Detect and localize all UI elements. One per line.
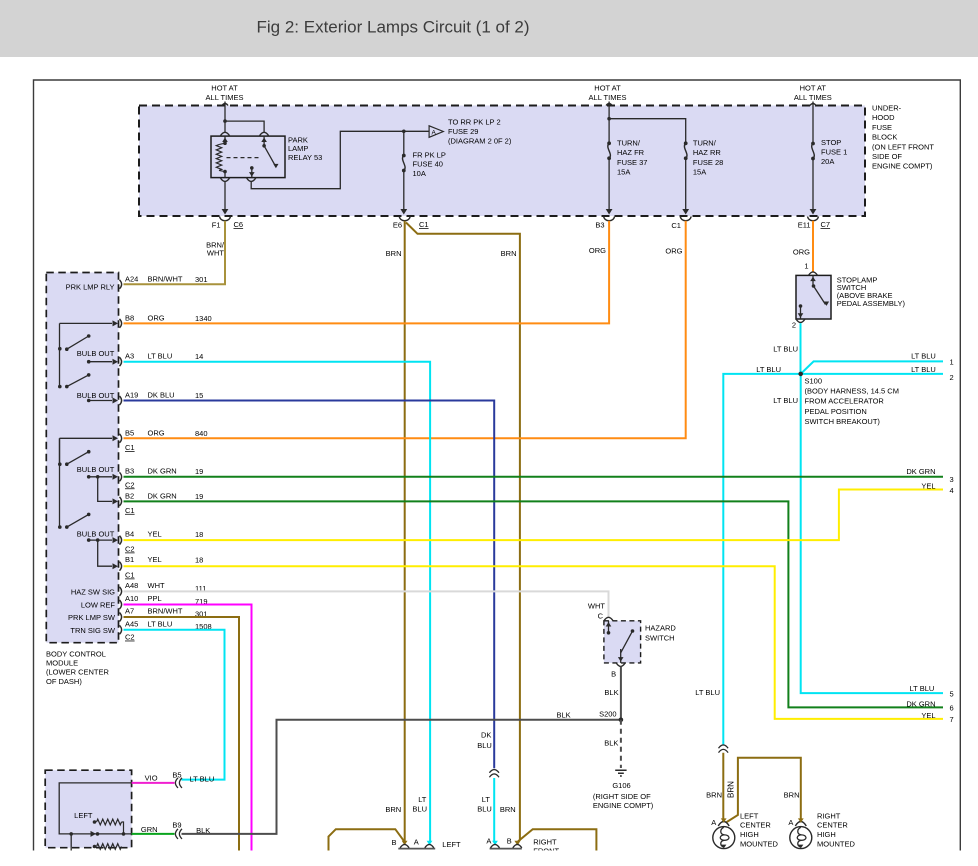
svg-text:LT BLU: LT BLU — [695, 688, 720, 697]
label YEL (terminal 7) — [921, 711, 935, 720]
splice S200 — [599, 710, 623, 723]
svg-text:HAZ SW SIG: HAZ SW SIG — [71, 587, 115, 596]
svg-text:HAZ FR: HAZ FR — [617, 148, 645, 157]
svg-text:B: B — [391, 838, 396, 847]
svg-text:C2: C2 — [125, 545, 135, 554]
switch HAZARD SWITCH — [598, 612, 641, 679]
svg-text:DK GRN: DK GRN — [906, 467, 935, 476]
label BLK (ground leg) — [604, 738, 618, 747]
svg-text:1340: 1340 — [195, 314, 212, 323]
svg-text:UNDER-: UNDER- — [872, 104, 902, 113]
wire relay output to fuse 40 junction — [251, 130, 428, 189]
label HAZARD SWITCH — [645, 624, 676, 643]
svg-text:YEL: YEL — [148, 555, 162, 564]
svg-text:HOOD: HOOD — [872, 113, 895, 122]
svg-text:7: 7 — [950, 715, 954, 724]
svg-text:MOUNTED: MOUNTED — [817, 840, 855, 849]
BCM bulb-out driver 4 — [58, 438, 115, 538]
svg-text:LOW REF: LOW REF — [81, 601, 116, 610]
svg-text:20A: 20A — [821, 157, 834, 166]
svg-text:(BODY HARNESS, 14.5 CM: (BODY HARNESS, 14.5 CM — [805, 387, 899, 396]
BCM pin A10 LOW REF — [81, 594, 208, 610]
BCM pin B5 / connector C1 — [60, 428, 208, 452]
label FR PK LP FUSE 40 10A — [413, 151, 446, 178]
connector break DK BLU / LT BLU — [489, 770, 499, 778]
svg-text:ORG: ORG — [793, 248, 810, 257]
wire LT BLU S100 to terminal 1 — [801, 361, 943, 374]
BCM bulb-out driver 1 — [58, 323, 115, 358]
wire BRN left centre to right centre lamp — [726, 758, 801, 823]
svg-text:C7: C7 — [821, 220, 831, 229]
svg-text:B: B — [611, 669, 616, 678]
svg-text:C1: C1 — [671, 221, 681, 230]
label S100 BODY HARNESS — [805, 376, 899, 426]
label STOP FUSE 1 20A — [821, 138, 847, 166]
BCM bulb-out driver 3 — [58, 438, 115, 474]
svg-text:BRN/WHT: BRN/WHT — [148, 274, 183, 283]
svg-text:LT BLU: LT BLU — [148, 619, 173, 628]
svg-text:A7: A7 — [125, 607, 134, 616]
svg-text:F1: F1 — [212, 221, 221, 230]
wire arrowheads at front lamp pins — [402, 841, 521, 845]
svg-text:HOT AT: HOT AT — [211, 84, 238, 93]
BCM bulb-out driver 2 — [58, 349, 115, 401]
svg-text:A: A — [788, 818, 793, 827]
svg-text:A48: A48 — [125, 581, 138, 590]
resistor (left turn) — [93, 819, 124, 834]
svg-text:2: 2 — [950, 373, 954, 382]
wire BLK S200 to G106 (dashed) — [620, 720, 622, 768]
svg-text:WHT: WHT — [588, 602, 605, 611]
wire relay feed — [222, 102, 264, 134]
svg-text:B1: B1 — [125, 555, 134, 564]
label LT BLU (above S100) — [773, 345, 798, 354]
wire LT BLU S100 left branch to centre lamps — [723, 374, 800, 745]
svg-text:840: 840 — [195, 429, 208, 438]
svg-text:BULB OUT: BULB OUT — [77, 391, 115, 400]
svg-text:Fig 2: Exterior Lamps Circuit: Fig 2: Exterior Lamps Circuit (1 of 2) — [256, 18, 529, 37]
svg-text:5: 5 — [950, 689, 954, 698]
svg-text:1: 1 — [950, 358, 954, 367]
label YEL (terminal 4) — [921, 481, 935, 490]
fuse TURN/HAZ FR FUSE 37 15A — [606, 141, 613, 214]
svg-text:A10: A10 — [125, 594, 138, 603]
svg-text:A: A — [414, 837, 419, 846]
svg-text:PARK: PARK — [288, 136, 308, 145]
node HOT AT ALL TIMES (haz fuses feed) — [589, 84, 627, 103]
svg-text:B5: B5 — [172, 771, 181, 780]
svg-text:S100: S100 — [805, 376, 823, 385]
label PARK LAMP RELAY 53 — [288, 136, 322, 162]
svg-text:PRK LMP SW: PRK LMP SW — [68, 613, 116, 622]
svg-text:MOUNTED: MOUNTED — [740, 840, 778, 849]
svg-text:LT BLU: LT BLU — [148, 352, 173, 361]
svg-text:BLU: BLU — [477, 741, 492, 750]
svg-text:LT: LT — [418, 795, 427, 804]
wire DK BLU 15 A19 down — [124, 401, 495, 769]
fuse FR PK LP FUSE 40 10A — [400, 132, 407, 215]
svg-text:VIO: VIO — [145, 773, 158, 782]
wire relay coil to F1 — [222, 182, 229, 215]
svg-text:S200: S200 — [599, 710, 617, 719]
svg-text:A19: A19 — [125, 391, 138, 400]
BCM pin B4 BULB OUT / connector C2 — [87, 530, 203, 554]
svg-text:15: 15 — [195, 391, 203, 400]
wire LT BLU stoplamp to S100 — [800, 323, 802, 374]
wire LT BLU 1508 A45 to B5 connector — [124, 630, 225, 780]
internal feed line — [59, 783, 131, 851]
label LT BLU (right front) — [477, 795, 492, 814]
svg-text:C: C — [598, 612, 604, 621]
svg-text:BLU: BLU — [477, 805, 492, 814]
label BRN (right centre) — [784, 791, 800, 800]
svg-text:YEL: YEL — [921, 481, 935, 490]
svg-text:LT: LT — [482, 795, 491, 804]
svg-text:WHT: WHT — [148, 581, 165, 590]
svg-text:C2: C2 — [125, 633, 135, 642]
switch STOPLAMP SWITCH — [792, 262, 831, 330]
label LT BLU (centre lamp drop) — [695, 688, 720, 697]
wire ORG B3 to BCM B8 — [124, 221, 610, 324]
label LT BLU (left branch) — [756, 365, 781, 374]
svg-text:LT BLU: LT BLU — [911, 351, 936, 360]
svg-text:2: 2 — [792, 321, 796, 330]
BCM pin A24 PRK LMP RLY — [66, 274, 208, 291]
label UNDER-HOOD FUSE BLOCK — [872, 104, 934, 171]
label LT BLU (below S100) — [773, 396, 798, 405]
splice S100 — [798, 372, 803, 377]
svg-text:FUSE 37: FUSE 37 — [617, 158, 647, 167]
svg-text:C1: C1 — [125, 443, 135, 452]
BCM pin A3 BULB OUT — [87, 352, 203, 367]
svg-text:ENGINE COMPT): ENGINE COMPT) — [872, 162, 933, 171]
BCM pin A19 BULB OUT — [87, 391, 203, 406]
svg-text:(DIAGRAM 2 0F 2): (DIAGRAM 2 0F 2) — [448, 137, 512, 146]
svg-text:C1: C1 — [125, 571, 135, 580]
svg-text:FROM ACCELERATOR: FROM ACCELERATOR — [805, 397, 885, 406]
svg-text:BRN/WHT: BRN/WHT — [148, 607, 183, 616]
svg-text:CENTER: CENTER — [817, 821, 848, 830]
svg-text:14: 14 — [195, 352, 203, 361]
pin B9 inline connector GRN/BLK — [132, 821, 211, 839]
svg-text:1: 1 — [804, 262, 808, 271]
svg-text:(RIGHT SIDE OF: (RIGHT SIDE OF — [593, 792, 651, 801]
svg-text:OF DASH): OF DASH) — [46, 677, 82, 686]
header title bar — [0, 0, 978, 57]
svg-text:BRN: BRN — [386, 249, 402, 258]
node HOT AT ALL TIMES (park lamp relay feed) — [206, 84, 244, 103]
svg-text:DK GRN: DK GRN — [148, 466, 177, 475]
svg-text:LT BLU: LT BLU — [773, 345, 798, 354]
svg-text:LEFT: LEFT — [74, 811, 93, 820]
label BLK (horizontal) — [557, 711, 571, 720]
wire BRN/WHT 301 F1 to BCM A24 — [124, 221, 226, 285]
wire BRN stub from right front B going right — [518, 829, 597, 850]
wire BRN E6 to left front B — [404, 221, 406, 844]
svg-text:HOT AT: HOT AT — [594, 84, 621, 93]
svg-text:SIDE OF: SIDE OF — [872, 152, 902, 161]
pin B3 — [595, 217, 614, 230]
svg-text:FUSE 1: FUSE 1 — [821, 148, 847, 157]
svg-text:B2: B2 — [125, 491, 134, 500]
svg-text:DK BLU: DK BLU — [148, 391, 175, 400]
wire BRN to left centre lamp — [722, 753, 724, 822]
svg-text:C1: C1 — [125, 506, 135, 515]
off-page arrow A TO RR PK LP 2 — [429, 126, 443, 138]
svg-text:SWITCH: SWITCH — [645, 633, 675, 642]
pin E6 / connector C1 — [393, 217, 429, 230]
svg-text:FUSE: FUSE — [872, 123, 892, 132]
svg-text:(ON LEFT FRONT: (ON LEFT FRONT — [872, 142, 934, 151]
svg-text:DK GRN: DK GRN — [906, 700, 935, 709]
svg-text:BRN: BRN — [727, 781, 736, 798]
svg-text:DK: DK — [481, 731, 491, 740]
svg-text:ORG: ORG — [665, 246, 682, 255]
label LEFT CENTER HIGH MOUNTED — [740, 811, 778, 848]
svg-text:BODY CONTROL: BODY CONTROL — [46, 650, 106, 659]
label ORG (E11) — [793, 248, 810, 257]
BCM pin B3 BULB OUT / connector C2 — [87, 466, 203, 489]
svg-text:301: 301 — [195, 275, 208, 284]
relay PARK LAMP RELAY 53 — [211, 132, 285, 181]
svg-text:C1: C1 — [419, 220, 429, 229]
svg-text:PEDAL POSITION: PEDAL POSITION — [805, 407, 867, 416]
fuse TURN/HAZ RR FUSE 28 15A — [682, 141, 689, 214]
svg-text:HAZ RR: HAZ RR — [693, 148, 722, 157]
svg-text:CENTER: CENTER — [740, 821, 771, 830]
svg-text:BULB OUT: BULB OUT — [77, 349, 115, 358]
wire BLK from B9 to S200 — [182, 720, 621, 834]
svg-text:ALL TIMES: ALL TIMES — [589, 93, 627, 102]
svg-text:TRN SIG SW: TRN SIG SW — [70, 626, 116, 635]
svg-text:BRN: BRN — [501, 249, 517, 258]
svg-text:ENGINE COMPT): ENGINE COMPT) — [593, 801, 654, 810]
lamp LEFT CENTER HIGH MOUNTED — [711, 818, 735, 849]
BCM pin B2 BULB OUT / connector C1 — [98, 477, 204, 515]
underhood fuse block (dashed box) — [139, 106, 865, 217]
svg-text:E11: E11 — [798, 221, 811, 230]
svg-text:BLK: BLK — [196, 826, 210, 835]
label BRN (right front) — [500, 805, 516, 814]
svg-text:A24: A24 — [125, 274, 138, 283]
wire PPL 719 A10 down — [124, 605, 252, 851]
label LT BLU (terminal 5) — [910, 684, 935, 693]
wire YEL 18 B4 to terminal 4 — [124, 490, 944, 541]
wire DK GRN 19 B3 to terminal 3 — [124, 476, 944, 478]
BCM pin B1 BULB OUT / connector C1 — [98, 540, 204, 579]
svg-text:TURN/: TURN/ — [693, 139, 717, 148]
pin C1 (fuse 28) — [671, 217, 691, 231]
svg-text:6: 6 — [950, 704, 954, 713]
svg-text:B4: B4 — [125, 530, 134, 539]
connector right front park/turn lamp — [486, 837, 521, 849]
label BLK (hazard) — [604, 688, 618, 697]
svg-text:LT BLU: LT BLU — [756, 365, 781, 374]
wire YEL 18 B1 to terminal 7 — [124, 566, 944, 719]
label LEFT — [74, 811, 93, 820]
svg-text:B8: B8 — [125, 313, 134, 322]
svg-text:15A: 15A — [693, 168, 706, 177]
svg-text:MODULE: MODULE — [46, 659, 78, 668]
svg-text:PPL: PPL — [148, 594, 162, 603]
svg-text:A45: A45 — [125, 619, 138, 628]
svg-text:FUSE 28: FUSE 28 — [693, 158, 723, 167]
connector left front park/turn lamp — [391, 837, 435, 848]
label DK BLU — [477, 731, 492, 751]
svg-text:BLK: BLK — [604, 688, 618, 697]
svg-text:A: A — [486, 837, 491, 846]
svg-text:BRN: BRN — [706, 791, 722, 800]
label ORG (C1) — [665, 246, 682, 255]
svg-text:STOP: STOP — [821, 138, 841, 147]
svg-text:ALL TIMES: ALL TIMES — [206, 93, 244, 102]
label RIGHT CENTER HIGH MOUNTED — [817, 811, 855, 848]
label DK GRN (terminal 6) — [906, 700, 935, 709]
label TURN/HAZ FR FUSE 37 15A — [617, 139, 647, 177]
svg-text:LT BLU: LT BLU — [910, 684, 935, 693]
svg-text:RIGHT: RIGHT — [533, 837, 557, 846]
svg-text:C2: C2 — [125, 480, 135, 489]
svg-text:YEL: YEL — [921, 711, 935, 720]
svg-text:B9: B9 — [172, 821, 181, 830]
wire stop fuse feed — [810, 102, 816, 144]
svg-text:15A: 15A — [617, 168, 630, 177]
svg-text:GRN: GRN — [141, 825, 158, 834]
wire LT BLU S100 down to terminal 5 — [801, 374, 943, 693]
label BODY CONTROL MODULE — [46, 650, 110, 686]
ground G106 — [593, 770, 654, 810]
svg-text:ORG: ORG — [148, 428, 165, 437]
svg-text:BRN: BRN — [784, 791, 800, 800]
wire ORG C1 to BCM B5 — [124, 221, 686, 439]
wire LT BLU 14 A3 to left front A — [124, 362, 431, 844]
wire BRN stub to left front B (from below) — [329, 829, 405, 850]
svg-text:A: A — [432, 129, 437, 136]
wire fuse 37/28 feed — [606, 102, 686, 144]
wire ORG E11 to stoplamp switch — [812, 221, 814, 272]
svg-text:BULB OUT: BULB OUT — [77, 530, 115, 539]
svg-text:LAMP: LAMP — [288, 144, 308, 153]
label LT BLU (terminal 2) — [911, 365, 936, 374]
svg-text:10A: 10A — [413, 169, 426, 178]
svg-text:18: 18 — [195, 556, 203, 565]
svg-text:DK GRN: DK GRN — [148, 491, 177, 500]
svg-text:TO RR PK LP 2: TO RR PK LP 2 — [448, 118, 501, 127]
svg-text:A3: A3 — [125, 352, 134, 361]
label BRN (left front) — [385, 805, 401, 814]
svg-text:WHT: WHT — [207, 249, 224, 258]
svg-text:TURN/: TURN/ — [617, 139, 641, 148]
svg-text:RIGHT: RIGHT — [817, 811, 841, 820]
svg-text:SWITCH BREAKOUT): SWITCH BREAKOUT) — [805, 417, 881, 426]
svg-text:3: 3 — [950, 475, 954, 484]
svg-text:FR PK LP: FR PK LP — [413, 151, 446, 160]
pin F1 / connector C6 — [212, 217, 243, 230]
wire LT BLU to right front A — [493, 778, 496, 844]
svg-text:G106: G106 — [612, 781, 630, 790]
svg-text:A: A — [711, 818, 716, 827]
svg-text:B: B — [507, 837, 512, 846]
svg-text:BLU: BLU — [412, 805, 427, 814]
module BODY CONTROL MODULE (dashed box) — [46, 273, 118, 643]
BCM pin A7 PRK LMP SW — [68, 607, 207, 623]
svg-text:B5: B5 — [125, 428, 134, 437]
label LT BLU (terminal 1) — [911, 351, 936, 360]
svg-text:ORG: ORG — [148, 313, 165, 322]
svg-text:FUSE 40: FUSE 40 — [413, 160, 443, 169]
svg-text:19: 19 — [195, 492, 203, 501]
svg-text:LT BLU: LT BLU — [190, 775, 215, 784]
pin B5 inline connector VIO/LT BLU — [132, 771, 215, 788]
label STOPLAMP SWITCH — [837, 275, 906, 308]
svg-text:HAZARD: HAZARD — [645, 624, 676, 633]
svg-text:B3: B3 — [125, 466, 134, 475]
label BRN (x405) — [386, 249, 402, 258]
svg-text:HIGH: HIGH — [817, 830, 836, 839]
svg-text:PEDAL ASSEMBLY): PEDAL ASSEMBLY) — [837, 299, 906, 308]
resistor 2 (cut off) — [93, 844, 122, 850]
svg-text:4: 4 — [950, 486, 954, 495]
svg-text:C6: C6 — [234, 220, 244, 229]
svg-text:BLK: BLK — [557, 711, 571, 720]
svg-text:HOT AT: HOT AT — [800, 84, 827, 93]
BCM pin A45 TRN SIG SW / connector C2 — [70, 619, 211, 641]
svg-text:BULB OUT: BULB OUT — [77, 465, 115, 474]
pin E11 / connector C7 — [798, 217, 830, 230]
svg-text:LT BLU: LT BLU — [773, 396, 798, 405]
wire BRN/WHT 301 A7 down — [124, 617, 240, 851]
svg-text:E6: E6 — [393, 221, 402, 230]
svg-text:(LOWER CENTER: (LOWER CENTER — [46, 668, 110, 677]
label TO RR PK LP 2 FUSE 29 — [448, 118, 512, 146]
svg-text:19: 19 — [195, 467, 203, 476]
wire DK GRN 19 B2 to terminal 6 — [124, 501, 944, 707]
label WHT (hazard) — [588, 602, 605, 611]
label DK GRN (terminal 3) — [906, 467, 935, 476]
svg-text:B3: B3 — [595, 221, 604, 230]
label LT BLU (left front) — [412, 795, 427, 814]
svg-text:ORG: ORG — [589, 246, 606, 255]
svg-text:ALL TIMES: ALL TIMES — [794, 93, 832, 102]
wire WHT 111 A48 to hazard switch — [124, 591, 609, 617]
BCM pin B8 (park lamp relay output) — [60, 313, 212, 328]
label BRN (x520) — [501, 249, 517, 258]
svg-text:RELAY 53: RELAY 53 — [288, 153, 322, 162]
svg-text:FUSE 29: FUSE 29 — [448, 127, 478, 136]
label RIGHT FRONT — [533, 837, 559, 855]
svg-text:BRN: BRN — [385, 805, 401, 814]
lamp RIGHT CENTER HIGH MOUNTED — [788, 818, 811, 849]
node HOT AT ALL TIMES (stop fuse feed) — [794, 84, 832, 103]
label BRN rotated — [727, 781, 736, 798]
wire LT BLU S100 to terminal 2 — [801, 373, 943, 375]
label TURN/HAZ RR FUSE 28 15A — [693, 139, 723, 177]
wire BRN E6 branch to right front B — [406, 223, 520, 844]
terminal numbers 1-7 — [950, 358, 954, 725]
fuse STOP FUSE 1 20A — [810, 142, 817, 215]
svg-text:LT BLU: LT BLU — [911, 365, 936, 374]
svg-text:LEFT: LEFT — [442, 840, 461, 849]
svg-text:18: 18 — [195, 530, 203, 539]
svg-text:BLK: BLK — [604, 738, 618, 747]
label ORG (B3) — [589, 246, 606, 255]
svg-text:LEFT: LEFT — [740, 811, 759, 820]
svg-text:PRK LMP RLY: PRK LMP RLY — [66, 282, 115, 291]
svg-text:HIGH: HIGH — [740, 830, 759, 839]
label BRN/WHT vertical — [206, 241, 225, 258]
svg-text:BRN: BRN — [500, 805, 516, 814]
BCM pin A48 HAZ SW SIG — [71, 581, 207, 597]
